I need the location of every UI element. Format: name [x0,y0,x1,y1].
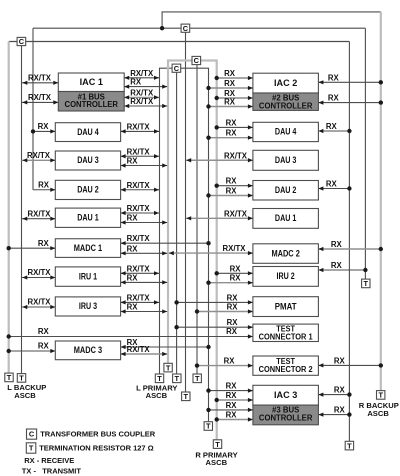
svg-text:RX: RX [127,273,139,282]
svg-text:RX/TX: RX/TX [28,93,52,102]
svg-text:CONNECTOR 1: CONNECTOR 1 [259,332,313,342]
wire IRU 3 right RX/TX to L PRIMARY [121,301,159,303]
svg-text:ASCB: ASCB [206,458,228,467]
wire DAU 2 left RX arrow corner from R BACKUP leg [33,189,55,191]
svg-text:RX/TX: RX/TX [127,264,151,273]
svg-text:RX: RX [226,118,238,127]
svg-text:RX/TX: RX/TX [127,234,151,243]
svg-text:TERMINATION RESISTOR 127 Ω: TERMINATION RESISTOR 127 Ω [39,444,154,453]
wire DAU 1 right-col RX/TX to R BACKUP stub [186,217,253,219]
DAU 1 left unit [55,208,120,227]
svg-text:T: T [347,441,352,450]
wire PMAT left RX from L PRIMARY stub [177,301,253,303]
svg-text:RX: RX [334,386,346,395]
svg-text:RX/TX: RX/TX [27,151,51,160]
svg-text:RX: RX [226,391,238,400]
termination T L BACKUP right leg [345,441,353,450]
svg-text:IRU 1: IRU 1 [79,271,97,281]
wire IRU 2 left RX from R PRIMARY [217,272,253,274]
svg-text:RX: RX [224,357,236,366]
wire MADC 1 right RX to R PRIMARY [121,252,168,254]
wire IAC 3 left RX from R PRIMARY leg 2 [217,419,253,421]
termination T R BACKUP far leg [377,391,385,400]
wire IAC 2 right RX from R BACKUP far leg 2 [318,102,380,104]
PMAT unit [253,297,319,317]
wire TEST CONNECTOR 1 left RX from L PRIMARY stub [177,326,253,328]
wire DAU 4 right RX/TX to L PRIMARY [121,130,159,132]
wire DAU 1 left RX/TX arrow [22,218,56,220]
wire L PRIMARY bus bridge [160,68,209,422]
wire L BACKUP right leg x=349.4 [348,42,350,442]
svg-text:C: C [19,37,25,46]
svg-text:RX: RX [226,187,238,196]
svg-text:RX: RX [334,356,346,365]
wire IAC 2 left RX from L PRIMARY leg 2 [209,106,253,108]
DAU 1 right unit [253,209,319,229]
wire IAC 3 right RX from L BACKUP leg [318,394,349,396]
svg-text:T: T [364,279,369,288]
wire R BACKUP right leg x=365.4 [364,28,366,279]
svg-text:TX - TRANSMIT: TX - TRANSMIT [22,466,82,475]
svg-text:RX: RX [224,69,236,78]
wire IAC 2 left RX from L PRIMARY leg [209,87,253,89]
svg-text:RX: RX [226,411,238,420]
wire IRU 3 left RX/TX arrow [22,306,56,308]
svg-text:DAU 2: DAU 2 [275,185,297,195]
svg-text:RX/TX: RX/TX [127,204,151,213]
svg-text:MADC 1: MADC 1 [74,243,102,253]
termination T R PRIMARY stub [193,374,201,383]
MADC 3 unit [55,341,120,360]
node junction on R BACKUP at (162,28.2) [160,26,164,30]
wire IRU 1 right RX/TX to L PRIMARY [121,272,159,274]
MADC 1 unit [55,239,120,258]
svg-text:RX: RX [230,264,242,273]
svg-text:RX: RX [226,382,238,391]
svg-text:DAU 4: DAU 4 [77,127,99,137]
svg-text:C: C [174,64,180,73]
legend coupler symbol C [27,429,37,439]
svg-text:RX/TX: RX/TX [127,181,151,190]
DAU 3 right unit [253,150,319,170]
svg-text:RX: RX [227,293,239,302]
svg-text:RX: RX [334,406,346,415]
wire IAC 2 left RX from R PRIMARY leg [217,77,253,79]
svg-text:RX/TX: RX/TX [28,268,52,277]
wire R BACKUP far right leg x=380.8 [380,12,382,391]
svg-text:ASCB: ASCB [146,391,168,400]
svg-text:RX: RX [130,78,142,87]
svg-text:RX/TX: RX/TX [127,147,151,156]
wire IAC 1 right RX/TX to L PRIMARY [124,77,159,79]
svg-text:RX: RX [227,318,239,327]
IRU 3 unit [55,297,120,316]
IRU 1 unit [55,267,120,286]
wire IRU 3 right RX to R PRIMARY [121,311,168,313]
svg-text:T: T [195,374,200,383]
svg-text:RX: RX [227,303,239,312]
termination T L PRIMARY left leg [155,374,163,383]
svg-text:DAU 3: DAU 3 [275,155,297,165]
wire IAC 3 right RX from L BACKUP leg 2 [318,414,349,416]
svg-text:MADC 2: MADC 2 [271,248,299,258]
svg-text:IRU 3: IRU 3 [79,301,97,311]
wire R BACKUP left leg x=33 [32,28,34,190]
svg-text:CONTROLLER: CONTROLLER [259,100,313,110]
svg-text:RX/TX: RX/TX [224,151,248,160]
svg-text:RX/TX: RX/TX [223,244,247,253]
wire IAC 3 left RX from R PRIMARY leg [217,399,253,401]
IAC 2 unit [253,73,319,93]
#2 BUS CONTROLLER unit [253,93,319,110]
svg-text:DAU 3: DAU 3 [77,155,99,165]
wire IRU 2 left RX from L PRIMARY [209,282,253,284]
wire L PRIMARY coupler stub x=176.6 [176,72,178,374]
svg-text:RX: RX [38,239,50,248]
svg-text:PMAT: PMAT [275,301,297,311]
DAU 3 left unit [55,151,120,170]
svg-text:RX: RX [224,79,236,88]
wire long RX run from L BACKUP to TEST CONNECTOR 1 y=336.5 [9,336,253,338]
wire IAC 1 right RX to R PRIMARY [124,86,167,88]
svg-text:TRANSFORMER BUS COUPLER: TRANSFORMER BUS COUPLER [40,430,156,439]
svg-text:DAU 1: DAU 1 [275,213,297,223]
svg-text:MADC 3: MADC 3 [74,345,102,355]
wire MADC 1 right RX/TX junction on L PRIMARY right leg [121,242,209,244]
wire R BACKUP coupler stub x=185.5 [185,32,187,392]
svg-text:T: T [378,391,383,400]
svg-text:T: T [29,444,34,453]
wire IRU 1 right RX to R PRIMARY [121,281,168,283]
svg-text:RX/TX: RX/TX [130,97,154,106]
TEST CONNECTOR 1 unit [253,324,319,341]
wire DAU 3 right RX/TX to L PRIMARY [121,155,159,157]
TEST CONNECTOR 2 unit [253,356,319,375]
svg-text:RX/TX: RX/TX [28,209,52,218]
wire IAC 3 left RX from L PRIMARY leg 2 [209,409,253,411]
svg-text:RX: RX [326,122,338,131]
svg-text:T: T [166,363,171,372]
wire TEST CONNECTOR 2 right RX from R BACKUP far leg [318,364,380,366]
svg-text:RX/TX: RX/TX [127,345,151,354]
svg-text:RX: RX [127,303,139,312]
svg-text:C: C [183,24,189,33]
svg-text:DAU 1: DAU 1 [77,212,99,222]
termination T L PRIMARY right leg [204,422,212,431]
svg-text:RX/TX: RX/TX [224,209,248,218]
termination T L BACKUP stub [17,374,25,383]
svg-text:RX: RX [331,261,343,270]
wire IRU 2 right RX from R BACKUP leg [318,269,365,271]
svg-text:DAU 2: DAU 2 [77,185,99,195]
svg-text:RX: RX [38,180,50,189]
wire PMAT left RX from R PRIMARY stub [197,311,253,313]
wire MADC 1 left RX arrow from L BACKUP leg [9,247,56,249]
svg-text:RX: RX [226,177,238,186]
svg-text:RX: RX [331,240,343,249]
wire DAU 2 right-col left RX from L PRIMARY [209,195,253,197]
svg-text:CONNECTOR 2: CONNECTOR 2 [259,364,313,374]
wire IAC 1 left RX/TX arrow y=82.8 [22,82,59,84]
svg-text:RX: RX [226,129,238,138]
svg-text:RX/TX: RX/TX [28,298,52,307]
wire DAU 2 right RX/TX to L PRIMARY [121,189,159,191]
wire MADC 3 right RX/TX to R PRIMARY [121,353,168,355]
termination T R PRIMARY left leg [164,363,172,372]
svg-text:RX - RECEIVE: RX - RECEIVE [24,456,74,465]
wire DAU 1 right RX/TX to L PRIMARY [121,212,159,214]
svg-text:RX: RX [38,327,50,336]
svg-text:RX: RX [328,94,340,103]
svg-text:RX: RX [226,401,238,410]
svg-text:RX: RX [328,73,340,82]
termination T R PRIMARY right leg [213,440,221,449]
svg-text:RX: RX [326,180,338,189]
DAU 2 right unit [253,181,319,201]
wire L BACKUP left leg x=8.7 [8,42,10,374]
termination T L PRIMARY stub [173,374,181,383]
svg-text:RX: RX [127,214,139,223]
DAU 4 left unit [55,123,120,142]
svg-text:IAC 3: IAC 3 [274,390,297,400]
svg-text:T: T [157,374,162,383]
wire MADC 3 left RX arrow from L BACKUP leg [9,350,56,352]
svg-text:T: T [7,373,12,382]
coupler C on R BACKUP bus [181,24,190,32]
DAU 4 right unit [253,122,319,141]
wire MADC 3 right RX junction on L PRIMARY right leg [121,346,209,348]
svg-text:RX/TX: RX/TX [127,122,151,131]
MADC 2 unit [253,244,319,263]
DAU 2 left unit [55,180,120,199]
svg-text:RX: RX [38,342,50,351]
wire DAU 1 right RX to R PRIMARY [121,222,168,224]
wire R PRIMARY bus bridge [168,61,217,440]
svg-text:CONTROLLER: CONTROLLER [65,99,119,109]
svg-text:RX: RX [230,274,242,283]
IAC 3 unit [253,385,319,405]
legend termination symbol T [26,443,36,453]
wire DAU 3 right-col RX/TX to R BACKUP stub [186,159,253,161]
IAC 1 unit [58,73,124,92]
svg-text:RX/TX: RX/TX [28,74,52,83]
wire IAC 2 right RX from R BACKUP far leg [318,81,380,83]
svg-text:T: T [206,422,211,431]
svg-text:T: T [19,374,24,383]
wire DAU 4 right-col right RX from L BACKUP leg [318,130,349,132]
wire IRU 1 left RX/TX arrow [22,277,56,279]
wire IAC 1 right RX/TX to L PRIMARY 2 [124,96,159,98]
svg-text:T: T [215,440,220,449]
wire DAU 3 right RX to R PRIMARY [121,165,168,167]
svg-text:CONTROLLER: CONTROLLER [259,413,313,423]
svg-text:IAC 2: IAC 2 [274,78,297,88]
wire IAC 1 right RX/TX to R PRIMARY [124,105,167,107]
wire L BACKUP bus top run y=41.5 [9,41,350,43]
wire MADC 2 left RX/TX to R PRIMARY leg [169,252,253,254]
coupler C on L PRIMARY bus [172,64,181,72]
wire R PRIMARY coupler stub x=197 [196,65,198,375]
svg-text:RX/TX: RX/TX [130,69,154,78]
svg-text:IAC 1: IAC 1 [80,77,103,87]
wire IAC 2 left RX from R PRIMARY leg 2 [217,97,253,99]
wire DAU 4 right-col left RX from R PRIMARY [217,126,253,128]
coupler C on R PRIMARY bus [192,56,201,64]
wire DAU 3 left RX/TX arrow [22,159,56,161]
wire TEST CONNECTOR 2 left RX from R PRIMARY stub [197,365,253,367]
svg-text:RX: RX [224,98,236,107]
termination T R BACKUP stub [182,392,190,401]
IRU 2 unit [253,267,319,287]
svg-text:T: T [175,374,180,383]
svg-text:C: C [29,430,35,439]
wire DAU 2 right-col right RX from L BACKUP leg [318,188,349,190]
svg-text:ASCB: ASCB [367,409,389,418]
termination T L BACKUP left leg [5,373,13,382]
svg-text:RX: RX [127,244,139,253]
wire R BACKUP bus top run y=28.2 [33,27,365,29]
svg-text:T: T [184,392,189,401]
#3 BUS CONTROLLER unit [253,405,319,425]
svg-text:RX/TX: RX/TX [127,293,151,302]
svg-text:C: C [194,56,200,65]
wire MADC 2 right RX from R BACKUP far leg [318,248,380,250]
coupler C on L BACKUP bus [17,37,26,45]
svg-text:RX: RX [226,327,238,336]
wire R BACKUP jog up to y=11.9 and across [162,12,381,28]
wire IAC 3 left RX from L PRIMARY leg [209,390,253,392]
svg-text:RX: RX [38,122,50,131]
wire DAU 2 right-col left RX from R PRIMARY [217,185,253,187]
svg-text:RX: RX [127,157,139,166]
wire L BACKUP coupler stub x=21.5 [21,45,23,373]
#1 BUS CONTROLLER unit [58,92,124,112]
svg-text:IRU 2: IRU 2 [277,271,295,281]
wire DAU 4 left RX arrow from R BACKUP leg [33,130,55,132]
wire DAU 4 right-col left RX from L PRIMARY [209,137,253,139]
svg-text:DAU 4: DAU 4 [275,127,297,137]
svg-text:ASCB: ASCB [14,391,36,400]
wire IAC 1 left RX/TX arrow y=102.4 [22,101,59,103]
termination T R BACKUP right leg [362,279,370,288]
